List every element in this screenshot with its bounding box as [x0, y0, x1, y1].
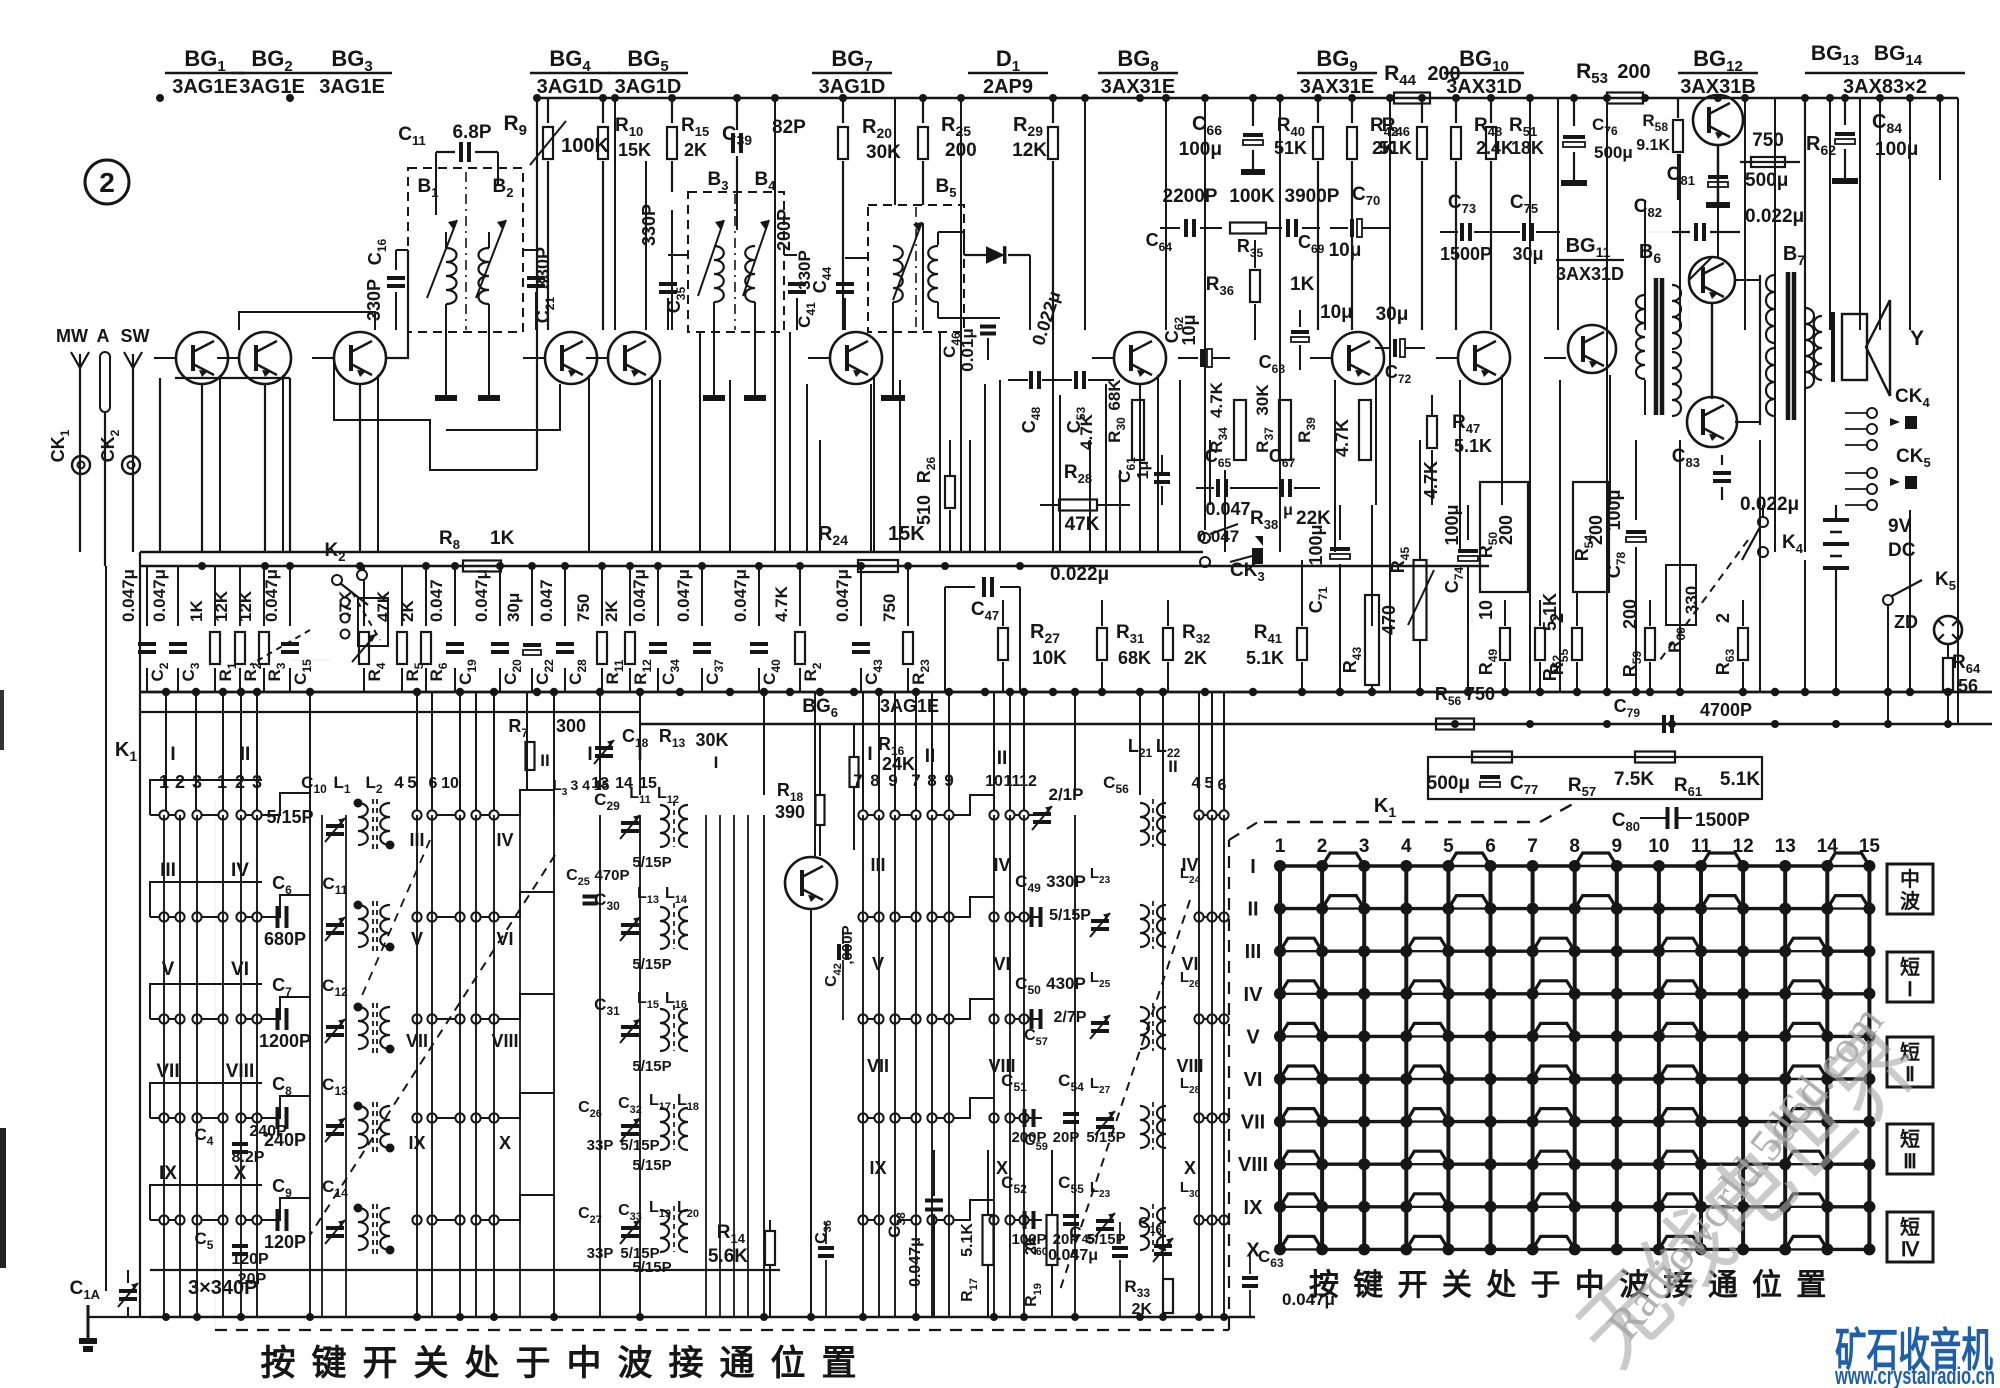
svg-text:3900P: 3900P [1285, 186, 1340, 207]
svg-text:30K: 30K [695, 730, 728, 750]
svg-text:0.047μ: 0.047μ [907, 1237, 924, 1287]
svg-text:5.1K: 5.1K [1540, 593, 1560, 631]
svg-text:1500P: 1500P [1440, 244, 1492, 264]
svg-text:V: V [1246, 1026, 1260, 1048]
svg-text:II: II [997, 748, 1008, 769]
svg-text:按: 按 [1309, 1269, 1339, 1302]
svg-text:10μ: 10μ [1320, 302, 1353, 323]
svg-text:5/15P: 5/15P [632, 956, 671, 973]
svg-text:短: 短 [1900, 955, 1920, 979]
svg-text:5/15P: 5/15P [632, 1058, 671, 1075]
svg-text:IV: IV [1244, 984, 1264, 1006]
svg-text:I: I [867, 744, 872, 765]
svg-text:10: 10 [1648, 836, 1669, 857]
svg-text:12K: 12K [212, 590, 231, 622]
svg-text:MW: MW [56, 326, 88, 346]
svg-text:2K: 2K [602, 600, 621, 622]
svg-text:4.7K: 4.7K [772, 585, 791, 622]
svg-text:8: 8 [870, 771, 879, 790]
svg-text:10: 10 [1476, 600, 1496, 620]
svg-text:2200P: 2200P [1163, 186, 1218, 207]
svg-text:2: 2 [99, 167, 115, 198]
svg-text:100μ: 100μ [1306, 524, 1326, 565]
svg-text:3AG1E: 3AG1E [880, 696, 939, 716]
svg-text:2K: 2K [398, 600, 417, 622]
svg-text:3AG1D: 3AG1D [819, 76, 886, 98]
svg-text:2K: 2K [1023, 1234, 1040, 1255]
svg-text:1μ: 1μ [1135, 461, 1152, 480]
svg-text:短: 短 [1900, 1127, 1920, 1151]
svg-text:0.047μ: 0.047μ [119, 569, 138, 622]
svg-text:330P: 330P [639, 204, 659, 246]
svg-text:X: X [499, 1133, 511, 1153]
svg-text:0.047: 0.047 [537, 579, 556, 622]
svg-text:置: 置 [1796, 1269, 1826, 1302]
svg-text:82P: 82P [772, 117, 806, 138]
svg-text:IV: IV [993, 855, 1010, 875]
svg-text:68K: 68K [1118, 648, 1151, 668]
svg-text:3AG1E: 3AG1E [319, 76, 385, 98]
svg-text:4.7K: 4.7K [1077, 413, 1096, 450]
svg-text:5: 5 [1443, 836, 1454, 857]
svg-text:1: 1 [217, 772, 227, 792]
svg-text:1K: 1K [187, 600, 206, 622]
svg-text:3AX31D: 3AX31D [1556, 264, 1624, 284]
svg-text:500μ: 500μ [1745, 170, 1788, 191]
svg-text:330: 330 [1682, 586, 1701, 614]
svg-text:键: 键 [1353, 1269, 1383, 1302]
svg-text:2/7P: 2/7P [1054, 1009, 1087, 1026]
svg-text:5/15P: 5/15P [266, 807, 313, 827]
svg-text:5.1K: 5.1K [1720, 769, 1760, 790]
svg-text:V: V [872, 954, 884, 974]
svg-text:2AP9: 2AP9 [983, 76, 1033, 98]
svg-text:15: 15 [639, 775, 657, 792]
svg-text:500μ: 500μ [1427, 773, 1470, 794]
svg-text:I: I [170, 744, 175, 765]
svg-text:68K: 68K [1105, 379, 1124, 411]
svg-text:VIII: VIII [491, 1031, 518, 1051]
svg-text:10μ: 10μ [1179, 314, 1199, 345]
svg-text:30K: 30K [1253, 384, 1272, 416]
svg-text:2: 2 [235, 772, 245, 792]
svg-text:18K: 18K [1511, 138, 1544, 158]
svg-text:47K: 47K [1065, 514, 1100, 535]
svg-text:5/15P: 5/15P [620, 1137, 659, 1154]
svg-text:VIII: VIII [1238, 1154, 1268, 1176]
svg-text:4: 4 [394, 773, 404, 792]
svg-text:10μ: 10μ [1329, 240, 1362, 261]
svg-text:IX: IX [1244, 1197, 1264, 1219]
svg-text:9: 9 [1612, 836, 1623, 857]
svg-text:Ⅰ: Ⅰ [1907, 979, 1913, 1001]
svg-text:3: 3 [192, 772, 202, 792]
svg-text:430P: 430P [1046, 974, 1086, 993]
svg-text:100K: 100K [561, 135, 609, 157]
svg-text:开: 开 [1398, 1269, 1428, 1302]
svg-text:47K: 47K [374, 590, 393, 622]
svg-text:VI: VI [231, 959, 249, 980]
svg-text:1: 1 [1275, 836, 1286, 857]
svg-text:VI: VI [1244, 1069, 1263, 1091]
svg-text:33P: 33P [587, 1137, 614, 1154]
svg-text:II: II [240, 744, 251, 765]
svg-text:www.crystalradio.cn: www.crystalradio.cn [1834, 1363, 1995, 1388]
svg-text:5: 5 [1205, 775, 1214, 792]
svg-text:0.047: 0.047 [1205, 499, 1250, 519]
svg-text:位: 位 [770, 1344, 805, 1383]
svg-text:30μ: 30μ [1376, 304, 1409, 325]
svg-text:X: X [1246, 1239, 1260, 1261]
svg-text:100μ: 100μ [1875, 139, 1918, 160]
svg-text:中: 中 [1900, 867, 1920, 891]
svg-text:4700P: 4700P [1700, 700, 1752, 720]
svg-text:7.5K: 7.5K [1614, 769, 1654, 790]
svg-text:6: 6 [1485, 836, 1496, 857]
svg-text:波: 波 [1900, 890, 1921, 913]
svg-text:0.047μ: 0.047μ [472, 569, 491, 622]
svg-text:8: 8 [1569, 836, 1580, 857]
svg-text:2: 2 [1713, 613, 1733, 623]
svg-text:3AX83×2: 3AX83×2 [1843, 76, 1927, 98]
svg-text:VII: VII [867, 1056, 889, 1076]
svg-text:390: 390 [775, 802, 805, 822]
svg-text:3AX31E: 3AX31E [1300, 76, 1375, 98]
svg-text:100K: 100K [1229, 186, 1275, 207]
svg-text:200P: 200P [774, 209, 794, 251]
svg-text:5: 5 [407, 773, 416, 792]
svg-text:4.7K: 4.7K [1207, 381, 1226, 418]
svg-text:键: 键 [311, 1344, 346, 1383]
svg-text:0.047μ: 0.047μ [262, 569, 281, 622]
svg-text:30μ: 30μ [504, 593, 523, 622]
svg-text:3: 3 [252, 772, 262, 792]
svg-text:II: II [1168, 757, 1177, 776]
svg-text:3AG1E: 3AG1E [172, 76, 238, 98]
svg-text:0.022μ: 0.022μ [1740, 494, 1799, 515]
svg-text:IV: IV [496, 830, 513, 850]
svg-text:200: 200 [1586, 515, 1606, 545]
svg-text:8: 8 [927, 771, 936, 790]
svg-text:处: 处 [1485, 1269, 1516, 1302]
svg-text:510: 510 [914, 495, 934, 525]
svg-text:100μ: 100μ [1179, 139, 1222, 160]
svg-text:于: 于 [515, 1344, 550, 1383]
svg-text:5/15P: 5/15P [1086, 1129, 1125, 1146]
svg-text:100μ: 100μ [1604, 489, 1624, 530]
svg-text:0.047μ: 0.047μ [833, 569, 852, 622]
svg-text:置: 置 [821, 1344, 856, 1383]
svg-text:Y: Y [1910, 327, 1924, 350]
svg-text:位: 位 [1752, 1268, 1782, 1302]
svg-text:3AG1D: 3AG1D [537, 76, 604, 98]
svg-text:Ⅳ: Ⅳ [1901, 1239, 1920, 1261]
svg-text:VI: VI [496, 929, 513, 949]
svg-text:470: 470 [1379, 605, 1399, 635]
svg-text:5/15P: 5/15P [632, 854, 671, 871]
svg-text:200: 200 [1496, 515, 1516, 545]
svg-text:13: 13 [1775, 836, 1796, 857]
svg-text:30μ: 30μ [1512, 244, 1543, 264]
svg-text:III: III [1245, 941, 1262, 963]
svg-text:4: 4 [1401, 836, 1412, 857]
svg-text:开: 开 [362, 1344, 397, 1383]
svg-text:9: 9 [944, 771, 953, 790]
svg-text:2/1P: 2/1P [1049, 785, 1084, 804]
svg-text:关: 关 [1442, 1269, 1472, 1302]
svg-text:ZD: ZD [1894, 612, 1918, 632]
svg-text:200: 200 [1620, 599, 1640, 629]
svg-text:750: 750 [880, 594, 899, 622]
svg-text:15K: 15K [888, 523, 925, 545]
svg-text:750: 750 [1752, 130, 1784, 151]
svg-text:SW: SW [121, 326, 150, 346]
svg-text:III: III [870, 855, 885, 875]
svg-text:5.6K: 5.6K [708, 1246, 748, 1267]
svg-text:10K: 10K [1032, 648, 1067, 669]
svg-text:750: 750 [574, 594, 593, 622]
svg-text:10: 10 [985, 773, 1003, 790]
svg-text:8.2P: 8.2P [232, 1149, 265, 1166]
svg-text:3 4 15: 3 4 15 [571, 777, 610, 793]
svg-text:3: 3 [1359, 836, 1370, 857]
svg-text:200: 200 [1617, 61, 1650, 83]
svg-text:IX: IX [159, 1163, 177, 1184]
svg-text:1: 1 [159, 772, 169, 792]
svg-text:2: 2 [1547, 613, 1567, 623]
svg-text:I: I [587, 744, 592, 765]
svg-text:240P: 240P [249, 1123, 287, 1140]
svg-text:关: 关 [413, 1344, 448, 1383]
svg-text:680P: 680P [264, 929, 306, 949]
svg-text:A: A [97, 326, 110, 346]
svg-text:VI: VI [993, 954, 1010, 974]
svg-text:DC: DC [1888, 540, 1916, 561]
svg-text:3×340P: 3×340P [188, 1277, 258, 1299]
svg-text:中: 中 [566, 1344, 601, 1383]
svg-text:III: III [160, 860, 176, 881]
svg-text:24K: 24K [882, 754, 915, 774]
svg-text:IX: IX [869, 1158, 886, 1178]
svg-text:12K: 12K [236, 590, 255, 622]
svg-text:I: I [1250, 856, 1256, 878]
svg-text:5/15P: 5/15P [1049, 907, 1091, 924]
svg-text:0.047: 0.047 [427, 579, 446, 622]
svg-text:12: 12 [1019, 773, 1037, 790]
svg-text:0.022μ: 0.022μ [1050, 564, 1109, 585]
svg-text:短: 短 [1900, 1215, 1920, 1239]
svg-text:6: 6 [429, 775, 438, 792]
svg-text:3AG1E: 3AG1E [239, 76, 305, 98]
svg-text:5.1K: 5.1K [1246, 648, 1284, 668]
svg-text:2: 2 [1317, 836, 1328, 857]
svg-text:500μ: 500μ [1594, 143, 1633, 162]
svg-text:2: 2 [175, 772, 185, 792]
svg-text:II: II [1247, 899, 1258, 921]
svg-text:9.1K: 9.1K [1636, 137, 1670, 154]
svg-text:6: 6 [1218, 777, 1227, 794]
svg-text:1K: 1K [490, 528, 515, 549]
svg-text:5/15P: 5/15P [620, 1245, 659, 1262]
svg-text:5/15P: 5/15P [632, 1157, 671, 1174]
svg-text:33P: 33P [587, 1245, 614, 1262]
svg-text:II: II [540, 751, 549, 770]
svg-text:7: 7 [1527, 836, 1538, 857]
svg-text:VII: VII [1241, 1112, 1265, 1134]
svg-text:0.047μ: 0.047μ [674, 569, 693, 622]
svg-text:1200P: 1200P [259, 1031, 311, 1051]
svg-text:波: 波 [617, 1344, 652, 1383]
svg-text:按: 按 [260, 1344, 295, 1383]
svg-text:6.8P: 6.8P [452, 122, 491, 143]
svg-text:于: 于 [1531, 1269, 1561, 1302]
svg-text:15K: 15K [618, 140, 651, 160]
svg-text:9V: 9V [1888, 516, 1912, 537]
svg-text:μ: μ [1283, 502, 1293, 519]
svg-text:12K: 12K [1012, 140, 1047, 161]
svg-text:2K: 2K [1184, 648, 1207, 668]
svg-text:120P: 120P [231, 1251, 269, 1268]
svg-text:51K: 51K [1274, 138, 1307, 158]
svg-text:20P: 20P [1053, 1129, 1080, 1146]
svg-text:处: 处 [464, 1344, 499, 1383]
svg-text:0.047μ: 0.047μ [630, 569, 649, 622]
svg-text:0.047: 0.047 [1197, 527, 1240, 546]
svg-text:通: 通 [719, 1344, 754, 1383]
svg-text:VIII: VIII [226, 1061, 255, 1082]
svg-text:1K: 1K [1290, 274, 1315, 295]
svg-text:II: II [925, 746, 936, 767]
svg-text:10: 10 [441, 775, 459, 792]
svg-text:X: X [1184, 1158, 1196, 1178]
svg-text:200: 200 [1427, 63, 1460, 85]
svg-text:300: 300 [556, 716, 586, 736]
svg-text:Ⅲ: Ⅲ [1903, 1151, 1917, 1173]
svg-text:1500P: 1500P [1695, 810, 1750, 831]
svg-text:接: 接 [668, 1344, 703, 1383]
svg-text:2K: 2K [684, 140, 707, 160]
svg-text:I: I [714, 753, 719, 772]
svg-text:0.047μ: 0.047μ [731, 569, 750, 622]
svg-text:4: 4 [1192, 775, 1201, 792]
svg-text:5.1K: 5.1K [959, 1223, 976, 1257]
svg-text:470P: 470P [594, 867, 629, 884]
svg-text:11: 11 [1004, 773, 1021, 790]
svg-text:0.047μ: 0.047μ [150, 569, 169, 622]
svg-text:VII: VII [156, 1061, 179, 1082]
svg-text:330P: 330P [1046, 872, 1086, 891]
svg-text:51K: 51K [1379, 138, 1412, 158]
svg-text:120P: 120P [264, 1232, 306, 1252]
